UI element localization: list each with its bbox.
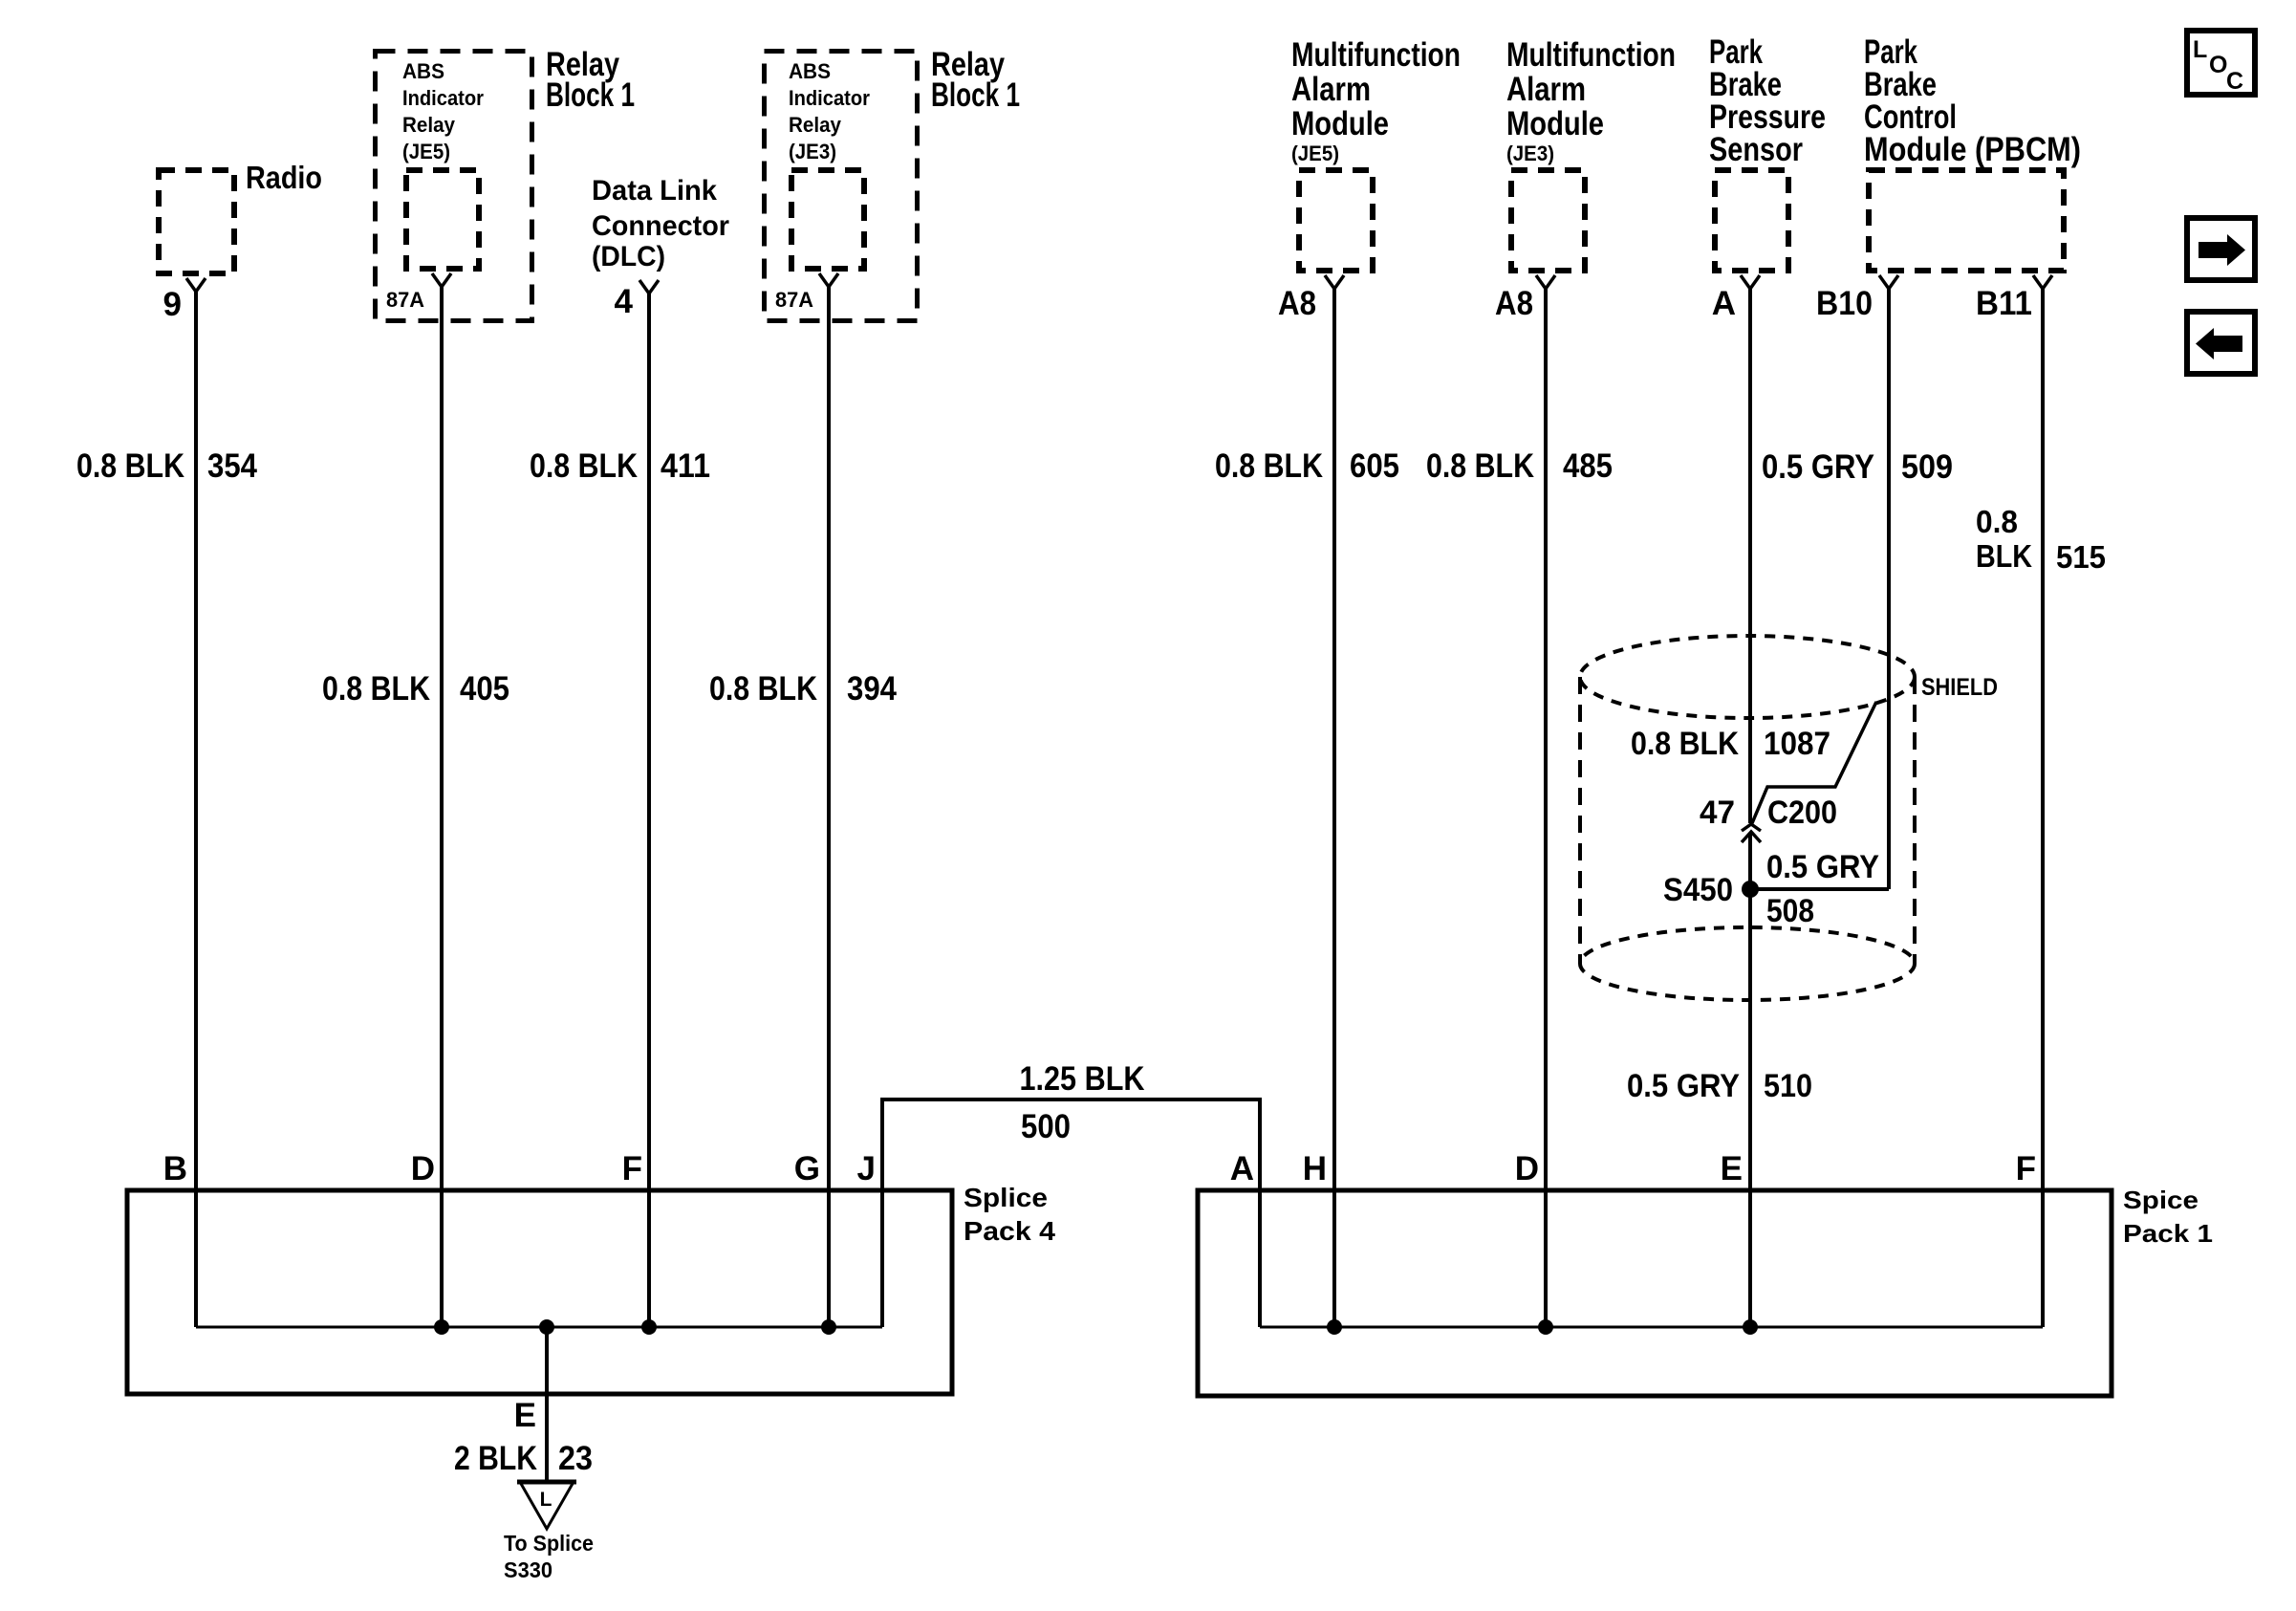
- svg-text:Radio: Radio: [246, 160, 322, 195]
- svg-text:Block 1: Block 1: [931, 76, 1020, 114]
- svg-text:B11: B11: [1976, 285, 2032, 322]
- svg-text:354: 354: [207, 447, 257, 485]
- svg-text:B10: B10: [1816, 285, 1873, 322]
- svg-text:A: A: [1230, 1150, 1254, 1187]
- svg-text:1087: 1087: [1764, 726, 1830, 762]
- svg-text:605: 605: [1350, 447, 1399, 485]
- svg-text:Data Link: Data Link: [592, 175, 717, 207]
- svg-text:Indicator: Indicator: [789, 86, 870, 110]
- svg-text:Spice: Spice: [2123, 1186, 2199, 1214]
- svg-text:Block 1: Block 1: [546, 76, 635, 114]
- svg-text:0.8 BLK: 0.8 BLK: [76, 447, 184, 485]
- svg-text:Module: Module: [1291, 105, 1389, 142]
- svg-text:405: 405: [460, 670, 509, 708]
- svg-text:O: O: [2209, 52, 2227, 78]
- svg-text:E: E: [1721, 1150, 1743, 1187]
- svg-text:(JE5): (JE5): [1291, 142, 1339, 165]
- svg-text:J: J: [857, 1150, 876, 1187]
- svg-text:394: 394: [847, 670, 897, 708]
- svg-text:Sensor: Sensor: [1709, 131, 1803, 168]
- svg-text:0.8 BLK: 0.8 BLK: [1215, 447, 1323, 485]
- svg-text:Relay: Relay: [789, 113, 842, 137]
- svg-text:A8: A8: [1495, 285, 1533, 322]
- svg-text:C: C: [2226, 68, 2243, 95]
- svg-text:(DLC): (DLC): [592, 241, 665, 272]
- svg-text:0.8 BLK: 0.8 BLK: [530, 447, 638, 485]
- svg-text:Pack 1: Pack 1: [2123, 1219, 2213, 1248]
- svg-text:500: 500: [1021, 1108, 1071, 1145]
- svg-text:(JE3): (JE3): [789, 140, 836, 163]
- svg-text:508: 508: [1766, 893, 1814, 929]
- svg-text:Alarm: Alarm: [1291, 71, 1371, 108]
- svg-text:1.25 BLK: 1.25 BLK: [1020, 1060, 1145, 1098]
- svg-text:F: F: [2016, 1150, 2036, 1187]
- svg-text:Module: Module: [1506, 105, 1604, 142]
- svg-text:0.5 GRY: 0.5 GRY: [1762, 448, 1874, 486]
- svg-text:0.8 BLK: 0.8 BLK: [709, 670, 817, 708]
- svg-text:Indicator: Indicator: [402, 86, 484, 110]
- svg-text:(JE5): (JE5): [402, 140, 450, 163]
- svg-text:509: 509: [1901, 448, 1953, 486]
- svg-text:Multifunction: Multifunction: [1291, 36, 1461, 74]
- svg-text:87A: 87A: [775, 288, 813, 312]
- svg-text:Alarm: Alarm: [1506, 71, 1586, 108]
- svg-text:A8: A8: [1278, 285, 1316, 322]
- svg-text:Multifunction: Multifunction: [1506, 36, 1676, 74]
- svg-text:87A: 87A: [386, 288, 424, 312]
- svg-text:To Splice: To Splice: [504, 1531, 594, 1556]
- svg-text:L: L: [540, 1489, 552, 1511]
- svg-text:ABS: ABS: [402, 59, 444, 83]
- svg-text:BLK: BLK: [1976, 538, 2032, 574]
- svg-text:4: 4: [615, 283, 634, 320]
- svg-text:ABS: ABS: [789, 59, 831, 83]
- svg-text:485: 485: [1563, 447, 1613, 485]
- svg-text:SHIELD: SHIELD: [1921, 674, 1998, 701]
- svg-text:47: 47: [1700, 795, 1735, 831]
- svg-text:510: 510: [1764, 1068, 1812, 1104]
- svg-text:Splice: Splice: [964, 1183, 1048, 1212]
- svg-text:0.5 GRY: 0.5 GRY: [1627, 1068, 1740, 1104]
- svg-text:S330: S330: [504, 1557, 552, 1582]
- svg-text:Connector: Connector: [592, 210, 729, 242]
- svg-text:D: D: [411, 1150, 435, 1187]
- svg-text:C200: C200: [1767, 795, 1837, 831]
- svg-text:A: A: [1712, 285, 1736, 322]
- svg-text:B: B: [163, 1150, 187, 1187]
- svg-text:L: L: [2193, 36, 2207, 63]
- svg-text:Module (PBCM): Module (PBCM): [1864, 131, 2081, 168]
- svg-text:H: H: [1303, 1150, 1327, 1187]
- svg-text:0.5 GRY: 0.5 GRY: [1766, 849, 1879, 885]
- svg-text:9: 9: [163, 286, 182, 323]
- svg-text:0.8 BLK: 0.8 BLK: [322, 670, 430, 708]
- svg-text:411: 411: [661, 447, 710, 485]
- svg-text:0.8 BLK: 0.8 BLK: [1631, 726, 1739, 762]
- svg-text:S450: S450: [1663, 872, 1733, 908]
- svg-text:2 BLK: 2 BLK: [454, 1440, 537, 1477]
- svg-text:23: 23: [558, 1440, 593, 1477]
- svg-text:0.8: 0.8: [1976, 504, 2018, 539]
- svg-text:Pack 4: Pack 4: [964, 1216, 1055, 1246]
- svg-text:515: 515: [2056, 539, 2106, 575]
- svg-text:G: G: [794, 1150, 820, 1187]
- svg-text:(JE3): (JE3): [1506, 142, 1554, 165]
- svg-text:D: D: [1515, 1150, 1539, 1187]
- svg-text:E: E: [514, 1397, 536, 1434]
- svg-text:Relay: Relay: [402, 113, 456, 137]
- svg-text:F: F: [622, 1150, 642, 1187]
- svg-text:0.8 BLK: 0.8 BLK: [1426, 447, 1534, 485]
